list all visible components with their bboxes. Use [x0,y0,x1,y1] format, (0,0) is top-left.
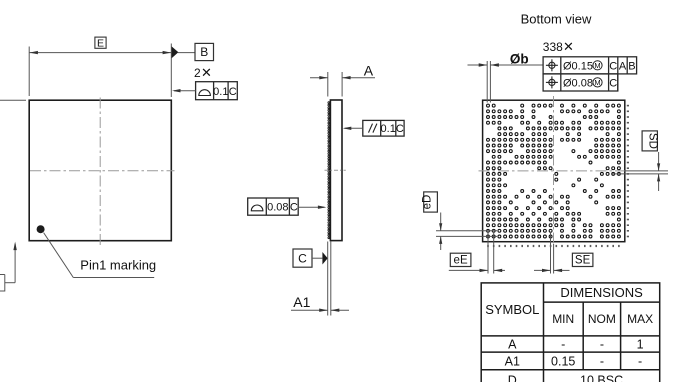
svg-text:2: 2 [194,66,201,80]
column tick marks [487,245,619,247]
row tick marks [627,105,629,238]
svg-text:Bottom view: Bottom view [521,12,592,27]
profile-of-surface symbol [199,90,211,96]
datum B flag [172,46,179,58]
svg-text:B: B [628,60,635,72]
svg-text:0.1: 0.1 [213,86,228,98]
svg-text:SD: SD [647,133,659,149]
svg-text:C: C [298,252,307,266]
top view center lines [30,98,175,246]
top view package outline [29,100,171,241]
svg-text:A1: A1 [293,294,310,310]
svg-text:A: A [364,63,374,79]
svg-text:C: C [290,202,298,214]
bottom view center lines [479,96,625,244]
pin1 marking dot [37,225,45,233]
svg-text:Pin1 marking: Pin1 marking [80,258,156,273]
svg-text:10 BSC: 10 BSC [580,374,623,382]
svg-text:A: A [619,60,627,72]
svg-text:338: 338 [543,40,563,54]
svg-text:M: M [594,61,600,70]
svg-text:E: E [97,37,104,49]
svg-text:0.08: 0.08 [267,202,288,214]
svg-text:✕: ✕ [201,65,212,80]
svg-text:0.1: 0.1 [381,123,396,135]
svg-text:NOM: NOM [588,312,616,326]
dimension Ob (ball diameter) [468,61,544,103]
svg-text:SE: SE [575,254,591,266]
svg-text:-: - [600,338,604,352]
svg-text:C: C [609,60,617,72]
svg-text:SYMBOL: SYMBOL [485,302,539,317]
svg-text:MIN: MIN [552,312,574,326]
dimension SD [642,131,657,151]
dimension A1 [291,309,349,311]
dimensions table [481,283,660,382]
dimension E [29,44,171,98]
svg-text:D: D [508,374,517,382]
side view body [330,100,342,241]
svg-text:B: B [200,45,208,59]
svg-text:-: - [638,355,642,369]
svg-text:A: A [508,338,517,352]
svg-text:A1: A1 [505,355,520,369]
svg-text:✕: ✕ [563,39,574,54]
cropped extension line left [0,99,26,101]
pin1 marking label and leader [44,233,155,278]
svg-text:C: C [396,123,404,135]
datum C flag [293,249,312,267]
bottom view outline [483,100,625,242]
side view ball column [328,102,330,239]
ball grid [487,104,621,238]
position symbol 2 [546,76,558,88]
cropped callout bottom-left [0,244,15,291]
svg-text:-: - [600,355,604,369]
seating plane lines [328,242,331,316]
svg-text:C: C [229,86,237,98]
svg-text:Ø0.15: Ø0.15 [563,60,593,72]
dimension eD [424,192,438,212]
parallelism frame [363,120,404,136]
profile frame 0.08 [248,198,299,215]
svg-text:0.15: 0.15 [551,355,575,369]
svg-text:DIMENSIONS: DIMENSIONS [560,285,643,300]
svg-text:Øb: Øb [510,51,529,66]
svg-text:eD: eD [422,195,434,210]
svg-text:Ø0.08: Ø0.08 [563,77,593,89]
svg-text:-: - [561,338,565,352]
svg-text:MAX: MAX [627,312,653,326]
dimension SE [534,233,570,274]
position symbol 1 [546,59,558,71]
svg-text:eE: eE [454,254,468,266]
side view center line [325,169,346,171]
dimension eE [450,253,471,266]
position tolerance frames [543,57,637,91]
dimension A [310,72,375,97]
svg-text:C: C [609,77,617,89]
svg-text:1: 1 [637,338,644,352]
svg-text:M: M [594,78,600,87]
